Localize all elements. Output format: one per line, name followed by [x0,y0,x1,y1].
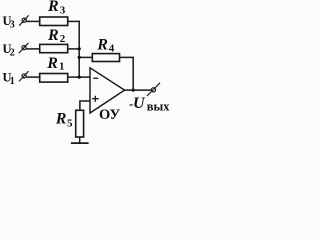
svg-text:U: U [133,95,146,112]
junction node output [132,89,135,92]
resistor R5 [76,110,84,137]
op-amp OU triangle [90,68,125,113]
junction node R2/bus [78,47,81,50]
wire bus to R4 [79,56,92,58]
input terminal U2 [19,43,29,53]
wire U1 to R1 [26,76,40,78]
svg-text:ОУ: ОУ [99,107,120,123]
ground [71,142,89,144]
svg-text:вых: вых [147,99,171,113]
svg-text:5: 5 [67,118,73,130]
svg-text:3: 3 [10,19,15,30]
svg-text:3: 3 [60,5,66,17]
op-amp minus sign [93,77,98,79]
svg-text:R: R [46,55,58,72]
output terminal [147,83,160,96]
svg-text:R: R [96,37,108,54]
wire R1 to op-amp inverting input [68,76,90,78]
wire R2 to bus [68,48,80,50]
junction node R1/bus [78,76,81,79]
svg-text:4: 4 [109,43,115,55]
svg-text:1: 1 [10,76,15,87]
wire output [125,89,152,91]
svg-text:2: 2 [10,48,15,59]
resistor R1 [40,74,68,83]
svg-text:R: R [55,111,67,128]
wire op-amp noninverting input to R5 [80,101,90,110]
svg-text:R: R [47,0,59,15]
svg-text:1: 1 [59,61,65,73]
svg-text:R: R [47,27,59,44]
svg-text:2: 2 [60,33,66,45]
wire U3 to R3 [26,20,39,22]
resistor R2 [40,44,68,52]
input terminal U3 [19,15,29,25]
resistor R4 [92,54,119,62]
wire R4 to output node [120,57,134,90]
wire R3 to bus [68,20,80,22]
wire R5 to ground [79,137,81,143]
input terminal U1 [19,71,29,81]
junction node R4/bus [78,56,81,59]
wire U2 to R2 [26,48,40,50]
resistor R3 [40,17,68,26]
wire summing bus [78,21,80,78]
op-amp plus sign [92,96,99,102]
